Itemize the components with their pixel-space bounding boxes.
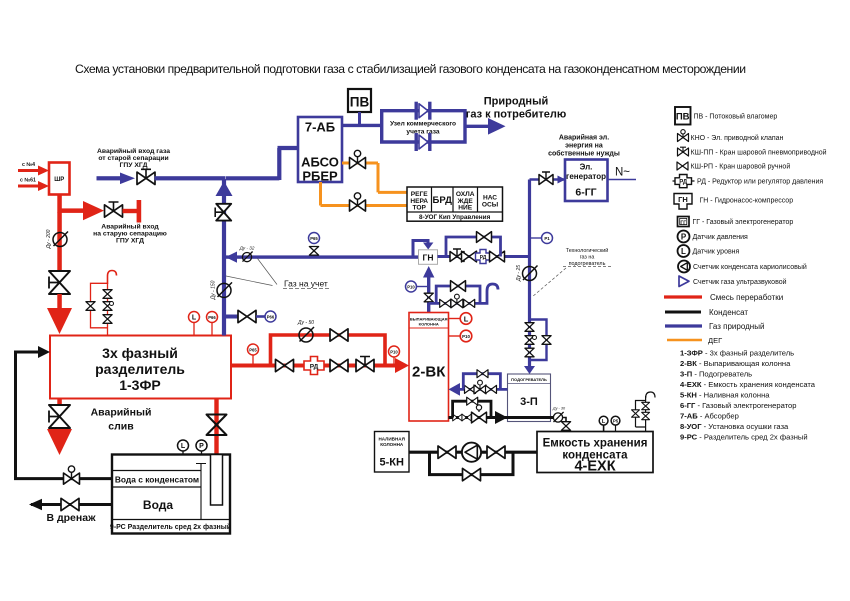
- wire condensate drain to 9-РС: [214, 399, 218, 455]
- valve on 2-ВК gas stem: [424, 293, 433, 302]
- sensor P65: [252, 355, 254, 365]
- legend line ДЕГ: [667, 339, 702, 342]
- valve relief left: [632, 410, 640, 417]
- svg-text:P65: P65: [310, 236, 318, 241]
- svg-text:ПВ - Потоковый влагомер: ПВ - Потоковый влагомер: [694, 113, 778, 121]
- SECTION: GN compressor and trunk: [406, 180, 612, 375]
- sensor P5 4-ЕХК: [611, 416, 620, 425]
- svg-text:Вода с конденсатом: Вода с конденсатом: [115, 475, 199, 485]
- legend ПВ icon: [675, 107, 691, 125]
- relief station 4-ЕХК: [636, 396, 646, 432]
- legend КНО icon: [678, 134, 689, 142]
- arrow into generator: [558, 176, 566, 184]
- SECTION: 2-VK column top vent: [409, 313, 472, 422]
- internal weir line: [196, 464, 206, 520]
- svg-text:L: L: [464, 315, 469, 324]
- svg-text:собственные нужды: собственные нужды: [548, 150, 620, 158]
- wire DEG top line: [342, 163, 407, 192]
- wire main red down: [57, 212, 62, 271]
- svg-text:учета газа: учета газа: [406, 129, 439, 136]
- svg-text:5-КН: 5-КН: [379, 457, 403, 469]
- valve vent КНО: [451, 294, 463, 308]
- bypass под кориолис: [430, 452, 514, 474]
- gas meter ultrasonic top: [415, 102, 432, 120]
- valve discharge 2: [462, 251, 477, 262]
- svg-text:Аварийный вход: Аварийный вход: [101, 223, 159, 231]
- svg-text:P1: P1: [544, 236, 550, 241]
- svg-text:Конденсат: Конденсат: [709, 308, 748, 317]
- arrow into riser: [226, 252, 238, 263]
- SECTION: orange DEG lines and 8-UOG: [321, 150, 503, 221]
- orifice Ду-25: [523, 266, 538, 281]
- valve vent 2: [464, 299, 475, 307]
- column 5-КН: [375, 432, 410, 473]
- wire to cap: [123, 209, 138, 213]
- bypass over ГН discharge: [446, 237, 501, 257]
- orifice Ду-200: [53, 232, 68, 247]
- svg-text:Ду - 150: Ду - 150: [211, 280, 217, 300]
- svg-text:2-ВК: 2-ВК: [412, 364, 446, 381]
- wire condensate 2-ВК to 3-П: [449, 416, 554, 419]
- svg-text:6-ГГ - Газовый электрогенерато: 6-ГГ - Газовый электрогенератор: [680, 401, 796, 410]
- svg-text:газ к потребителю: газ к потребителю: [466, 109, 567, 121]
- svg-text:1-3ФР: 1-3ФР: [119, 377, 161, 393]
- vessel 1-3ФР: [50, 336, 231, 399]
- valve налив 1: [438, 446, 456, 458]
- svg-text:ГГ - Газовый электрогенератор: ГГ - Газовый электрогенератор: [693, 218, 794, 226]
- orifice Ду-30 after heater: [553, 412, 563, 422]
- SECTION: metering and consumer: [342, 89, 566, 151]
- svg-text:генератор: генератор: [566, 172, 606, 181]
- wire heater outlet down: [562, 418, 566, 432]
- gas meter ultrasonic bottom: [415, 133, 432, 151]
- svg-text:Аварийный: Аварийный: [91, 407, 152, 419]
- vessel 9-РС: [112, 455, 230, 534]
- wire water return to separator: [16, 352, 113, 479]
- legend equipment list: [680, 349, 816, 442]
- valve cond bypass: [467, 397, 478, 405]
- valve КШ-ПП on blue inlet: [137, 169, 155, 184]
- svg-text:Счетчик конденсата кариолисовы: Счетчик конденсата кариолисовый: [693, 263, 807, 271]
- valve trunk 1: [525, 323, 534, 332]
- valve heat bypass: [477, 370, 488, 378]
- wire DEG bottom line: [321, 182, 408, 206]
- svg-text:Ду - 200: Ду - 200: [46, 229, 52, 249]
- svg-text:5-КН - Наливная колонна: 5-КН - Наливная колонна: [680, 391, 770, 400]
- wire below valve: [57, 294, 62, 310]
- legend ГГ icon: [678, 217, 690, 227]
- svg-text:Датчик уровня: Датчик уровня: [693, 249, 740, 256]
- legend line смесь: [664, 295, 702, 298]
- svg-text:от старой сепарации: от старой сепарации: [98, 154, 168, 162]
- SECTION: gas riser and 7-AB: [211, 117, 419, 336]
- svg-text:подогреватель: подогреватель: [569, 261, 606, 267]
- gooseneck vent 2-ВК: [481, 284, 498, 303]
- svg-text:В дренаж: В дренаж: [46, 512, 96, 524]
- svg-text:P10: P10: [462, 334, 470, 339]
- svg-text:Ду - 50: Ду - 50: [297, 320, 314, 326]
- svg-text:БРД: БРД: [433, 195, 453, 206]
- svg-text:P5: P5: [613, 419, 619, 424]
- unit 8-УОГ: [407, 187, 503, 221]
- svg-text:L: L: [181, 443, 186, 450]
- svg-text:Ду - 30: Ду - 30: [552, 407, 566, 411]
- valve relief r2: [642, 412, 650, 419]
- valve cond 2: [462, 414, 471, 421]
- vent loop bottom branch: [429, 302, 481, 305]
- svg-text:РБЕР: РБЕР: [302, 169, 338, 184]
- valve КНО on DEG top: [350, 150, 366, 168]
- orifice Ду-150 on riser: [217, 282, 232, 297]
- svg-text:ГПУ ХГД: ГПУ ХГД: [120, 162, 148, 169]
- regulator РД gas: [476, 250, 491, 264]
- arrow в дренаж: [29, 499, 42, 510]
- sensor P1: [530, 237, 542, 239]
- svg-text:с №61: с №61: [20, 178, 36, 184]
- svg-text:ГН - Гидронасос-компрессор: ГН - Гидронасос-компрессор: [700, 198, 794, 205]
- sensor L 4-ЕХК: [599, 416, 608, 425]
- valve КШ-ПП emergency inlet: [105, 202, 123, 217]
- wire ГН suction loop: [413, 241, 428, 257]
- vessel 4-ЕХК: [537, 432, 653, 473]
- svg-text:ДЕГ: ДЕГ: [708, 336, 722, 345]
- svg-text:Технологический: Технологический: [566, 247, 609, 254]
- legend P sensor: [678, 231, 690, 243]
- wire N~ output: [608, 179, 637, 181]
- svg-text:АБСО: АБСО: [301, 155, 339, 170]
- wire hot gas to 2-ВК: [459, 388, 508, 391]
- relief line on separator: [91, 283, 108, 335]
- svg-text:КОЛОННА: КОЛОННА: [419, 322, 439, 327]
- svg-text:Эл.: Эл.: [580, 163, 593, 172]
- svg-text:Емкость хранения: Емкость хранения: [543, 438, 648, 450]
- valve КНО on water return: [64, 466, 80, 484]
- cap flange old separation: [137, 200, 142, 223]
- arrow into 2-ВК: [395, 358, 409, 373]
- SECTION: generator 6-GG: [530, 134, 637, 202]
- svg-text:КНО - Эл. приводной клапан: КНО - Эл. приводной клапан: [691, 134, 784, 142]
- svg-text:Вода: Вода: [143, 498, 173, 512]
- gooseneck 4-ЕХК: [646, 392, 655, 398]
- wire tee to old separation: [60, 208, 85, 213]
- arrow into 3-П: [495, 411, 508, 424]
- SECTION: 9-RS water separator: [16, 346, 232, 534]
- wire to consumer: [465, 125, 489, 128]
- arrow up into header line: [216, 181, 233, 196]
- valve on P66 branch: [238, 310, 256, 322]
- legend РД icon: [675, 175, 692, 188]
- svg-text:7-АБ - Абсорбер: 7-АБ - Абсорбер: [680, 412, 739, 421]
- valve vent top: [451, 281, 466, 292]
- wire header jog to 7-АБ: [226, 148, 298, 180]
- svg-text:L: L: [192, 315, 197, 322]
- svg-text:3-П - Подогреватель: 3-П - Подогреватель: [680, 370, 752, 379]
- svg-text:энергия на: энергия на: [565, 143, 603, 150]
- arrow emergency drain down: [47, 429, 72, 455]
- valve on condensate drain: [207, 415, 227, 436]
- valve discharge 3: [490, 251, 505, 262]
- SECTION: separator 1-3FR: [47, 271, 231, 456]
- valve relief 1: [103, 290, 112, 299]
- valve into 4-ЕХК: [561, 422, 570, 431]
- svg-text:P: P: [681, 233, 687, 242]
- arrow to consumer: [488, 118, 506, 135]
- sensor P10: [393, 357, 395, 365]
- svg-text:ПОДОГРЕВАТЕЛЬ: ПОДОГРЕВАТЕЛЬ: [511, 377, 547, 382]
- svg-text:ГН: ГН: [423, 253, 434, 263]
- svg-text:6-ГГ: 6-ГГ: [575, 187, 596, 199]
- manifold ШР: [49, 163, 70, 195]
- bottom band label 9-РС: [112, 519, 230, 521]
- wire 7-АБ to metering unit: [342, 124, 382, 127]
- SECTION: top-left red feed: [18, 147, 226, 334]
- wire ГН discharge: [438, 255, 532, 258]
- valve relief r1: [642, 402, 650, 409]
- svg-text:Аварийная эл.: Аварийная эл.: [559, 134, 609, 142]
- valve heat 2: [486, 385, 497, 393]
- wire branch to P66: [224, 315, 238, 319]
- svg-text:Ду - 32: Ду - 32: [239, 246, 255, 251]
- svg-text:P65: P65: [249, 348, 257, 353]
- svg-text:1-ЗФР - 3х фазный разделитель: 1-ЗФР - 3х фазный разделитель: [680, 349, 794, 358]
- svg-text:P: P: [199, 443, 204, 450]
- svg-text:ШР: ШР: [54, 177, 64, 183]
- svg-text:3х фазный: 3х фазный: [102, 345, 178, 361]
- svg-text:Газ на учет: Газ на учет: [284, 279, 328, 289]
- vent loop top branch: [436, 286, 480, 303]
- sensor P66 blue: [256, 315, 265, 318]
- valve bypass налив: [463, 468, 481, 480]
- svg-text:разделитель: разделитель: [95, 361, 185, 377]
- wire down from ШР: [57, 195, 62, 213]
- sensor P10 2-ВК: [449, 335, 461, 337]
- valve relief 3: [103, 315, 112, 324]
- wire inlet arrow 2: [18, 181, 49, 191]
- legend line конденсат: [665, 311, 701, 314]
- svg-text:КОЛОННА: КОЛОННА: [380, 442, 404, 447]
- svg-text:НАС: НАС: [483, 195, 497, 202]
- legend coriolis meter: [678, 261, 690, 273]
- arrow into separator: [38, 346, 50, 358]
- wire ПВ stub: [358, 112, 361, 125]
- valve heat КНО: [474, 380, 486, 394]
- wire учет line: [226, 255, 419, 258]
- bypass condensate: [453, 401, 491, 417]
- svg-text:Счетчик газа ультразвуковой: Счетчик газа ультразвуковой: [693, 278, 787, 286]
- leader to trunk: [532, 268, 566, 297]
- wire trunk to generator: [530, 178, 566, 181]
- svg-text:РД: РД: [480, 255, 487, 261]
- wire drain line: [31, 503, 112, 506]
- svg-text:ОСЫ: ОСЫ: [482, 202, 499, 209]
- svg-text:ГПУ ХГД: ГПУ ХГД: [116, 238, 144, 245]
- sensor P on 9-РС: [196, 440, 207, 451]
- wire main red to 2-ВК: [231, 364, 396, 368]
- svg-text:КШ-ПП - Кран шаровой пневмопри: КШ-ПП - Кран шаровой пневмоприводной: [691, 149, 827, 157]
- valve on discharge bypass: [477, 232, 492, 243]
- sensor L 2-ВК: [449, 318, 461, 320]
- valve КШ-ПП after РД: [356, 357, 374, 372]
- arrow into separator: [47, 308, 72, 334]
- gooseneck vent: [108, 271, 117, 285]
- valve КШ-ПП generator: [539, 172, 553, 185]
- svg-text:ГН: ГН: [678, 195, 688, 204]
- svg-text:РД: РД: [679, 180, 688, 186]
- sensor P65 blue with valve: [309, 247, 318, 256]
- heater 3-П: [508, 374, 551, 422]
- svg-text:N~: N~: [615, 167, 630, 179]
- valve after РД: [330, 359, 348, 371]
- legend КШ-РП icon: [677, 162, 688, 170]
- wire bypass over regulator: [271, 335, 386, 366]
- svg-text:РД - Редуктор или регулятор да: РД - Редуктор или регулятор давления: [697, 179, 823, 186]
- svg-text:ПВ: ПВ: [350, 95, 370, 110]
- arrow into 3-П: [524, 366, 535, 374]
- wire arrow to valve: [83, 201, 104, 220]
- svg-text:9-РС - Разделитель сред 2х фаз: 9-РС - Разделитель сред 2х фазный: [680, 433, 808, 442]
- wire gas trunk vertical: [528, 180, 531, 368]
- svg-text:3-П: 3-П: [520, 396, 538, 408]
- sensor L on 9-РС: [178, 440, 189, 451]
- svg-text:НИЕ: НИЕ: [458, 205, 473, 212]
- valve relief bypass: [86, 302, 95, 311]
- leader lines: [226, 259, 277, 286]
- SECTION: heater 3-P and loops: [449, 370, 571, 432]
- svg-text:8-УОГ Кип Управления: 8-УОГ Кип Управления: [419, 214, 491, 221]
- dip tube: [211, 455, 223, 506]
- svg-text:Узел коммерческого: Узел коммерческого: [390, 121, 456, 128]
- SECTION: red line to 2-VK: [231, 320, 409, 375]
- svg-text:Схема установки предварительно: Схема установки предварительной подготов…: [75, 62, 746, 76]
- legend ГН icon: [674, 194, 692, 210]
- svg-text:РД: РД: [310, 364, 319, 371]
- svg-text:Природный: Природный: [484, 96, 548, 108]
- wire emergency drain: [57, 399, 62, 406]
- legend КШ-ПП icon: [678, 148, 689, 156]
- valve on riser with side stem: [216, 204, 231, 221]
- legend L sensor: [678, 245, 690, 257]
- wire gas riser: [222, 179, 226, 336]
- valve trunk КНО: [525, 336, 534, 345]
- svg-text:ТОР: ТОР: [413, 205, 427, 212]
- regulator РД: [304, 357, 324, 375]
- wire blue emergency gas inlet: [97, 176, 123, 180]
- valve vent 1: [440, 299, 451, 307]
- svg-text:Ду - 25: Ду - 25: [516, 265, 522, 282]
- svg-text:на старую сепарацию: на старую сепарацию: [93, 231, 167, 238]
- svg-text:9-РС Разделитель сред 2х фазны: 9-РС Разделитель сред 2х фазный: [110, 523, 231, 531]
- svg-text:ПВ: ПВ: [676, 112, 690, 123]
- svg-text:Аварийный вход газа: Аварийный вход газа: [97, 147, 170, 155]
- wire ГН bottom suction from 2-ВК: [427, 270, 430, 313]
- column 7-АБ: [298, 117, 342, 182]
- valve on drain: [61, 498, 79, 510]
- valve before РД: [276, 359, 294, 371]
- svg-text:P66: P66: [267, 315, 275, 320]
- valve cond 1: [453, 414, 462, 421]
- sensor P10 blue: [417, 286, 429, 288]
- svg-text:Газ природный: Газ природный: [709, 322, 764, 331]
- svg-text:P66: P66: [208, 315, 216, 320]
- valve КНО on DEG bottom: [350, 193, 366, 211]
- wire inlet arrow 1: [18, 166, 49, 176]
- column 2-ВК: [409, 313, 449, 422]
- svg-text:Смесь переработки: Смесь переработки: [710, 293, 783, 302]
- svg-text:4-ЕХК: 4-ЕХК: [574, 459, 615, 475]
- svg-text:P10: P10: [390, 350, 398, 355]
- svg-text:7-АБ: 7-АБ: [305, 120, 335, 135]
- valve КШ-ПП discharge: [450, 249, 464, 262]
- valve heat 1: [465, 385, 476, 393]
- wire 4-ЕХК to 5-КН: [409, 451, 537, 454]
- orifice Ду-50: [299, 327, 314, 342]
- svg-text:газ на: газ на: [580, 255, 595, 261]
- water-condensate band: [113, 471, 201, 488]
- bypass heat loop: [463, 374, 500, 390]
- svg-text:слив: слив: [108, 421, 134, 433]
- flow meter coriolis: [462, 443, 481, 462]
- valve relief 2: [103, 302, 112, 311]
- arrow into 2-ВК: [449, 383, 461, 396]
- valve налив 2: [487, 446, 505, 458]
- valve on bypass: [330, 329, 348, 341]
- svg-text:НАЛИВНАЯ: НАЛИВНАЯ: [378, 437, 404, 442]
- legend line газ природный: [665, 324, 702, 327]
- SECTION: 4-EHK storage and 5-KN: [375, 392, 656, 481]
- valve emergency drain: [49, 405, 70, 428]
- SECTION: legend: [664, 107, 827, 442]
- valve trunk bypass: [542, 336, 551, 345]
- sensor L on separator: [189, 312, 200, 323]
- wire blue to riser: [155, 176, 226, 180]
- svg-text:КШ-РП - Кран шаровой ручной: КШ-РП - Кран шаровой ручной: [691, 163, 791, 171]
- svg-text:8-УОГ - Установка осушки газа: 8-УОГ - Установка осушки газа: [680, 422, 789, 431]
- legend ultrasonic meter: [679, 276, 689, 287]
- svg-text:P10: P10: [407, 285, 415, 290]
- orifice Ду-32: [242, 252, 252, 262]
- valve cond КНО: [472, 412, 487, 423]
- moisture meter ПВ: [348, 89, 371, 112]
- svg-text:4-ЕХК - Емкость хранения конде: 4-ЕХК - Емкость хранения конденсата: [680, 380, 816, 389]
- svg-text:L: L: [681, 247, 686, 256]
- valve emergency main: [49, 271, 70, 294]
- svg-text:с №4: с №4: [22, 162, 35, 168]
- metering unit loop Узел учета: [382, 111, 465, 142]
- trunk valve station: [530, 320, 547, 361]
- valve trunk 2: [525, 348, 534, 357]
- svg-text:Датчик давления: Датчик давления: [693, 234, 749, 241]
- sensor P66 on separator: [207, 312, 218, 323]
- generator 6-ГГ: [565, 160, 608, 202]
- pump ГН: [419, 250, 438, 264]
- svg-text:2-ВК - Выпаривающая колонна: 2-ВК - Выпаривающая колонна: [680, 359, 791, 368]
- svg-text:ГГ: ГГ: [680, 220, 686, 226]
